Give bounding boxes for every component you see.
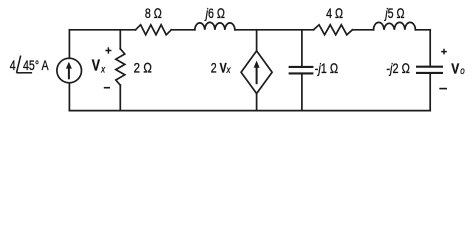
wire top middle [235, 29, 314, 31]
current source I1 circle [57, 58, 82, 83]
wire 2ohm branch top [119, 30, 121, 49]
wire left rail below source [68, 83, 70, 111]
wire top-left segment [69, 29, 135, 31]
svg-text:V: V [451, 60, 459, 77]
svg-text:j5 Ω: j5 Ω [384, 6, 405, 22]
wire between 8ohm and j6 [171, 29, 195, 31]
inductor L2 j5 [374, 22, 416, 29]
wire between 4ohm and j5 [352, 29, 373, 31]
svg-text:o: o [460, 65, 464, 76]
svg-text:x: x [100, 64, 105, 75]
current source arrow [66, 62, 72, 80]
minus sign Vo [439, 88, 447, 90]
svg-text:4: 4 [10, 57, 16, 73]
dependent current source D1 diamond 2Vx [241, 51, 272, 94]
wire bottom rail [69, 110, 430, 112]
wire top-right segment [415, 29, 430, 31]
capacitor C2 -j2 plates [416, 67, 443, 73]
wire left rail above source [68, 30, 70, 59]
capacitor C1 -j1 plates [289, 67, 314, 74]
angle symbol of source label [17, 56, 33, 73]
wire right rail below cap [429, 74, 431, 111]
label 4 45deg A [10, 57, 49, 73]
resistor R2 4ohm [314, 25, 353, 35]
wire right rail above cap [429, 30, 431, 66]
wire dep-source branch bottom [256, 94, 258, 111]
svg-text:4 Ω: 4 Ω [326, 6, 343, 22]
resistor R3 2ohm [116, 49, 125, 85]
wire -j1 branch top [301, 30, 303, 66]
svg-text:2 Ω: 2 Ω [134, 59, 153, 75]
svg-text:-j2 Ω: -j2 Ω [386, 61, 410, 77]
svg-text:8 Ω: 8 Ω [145, 6, 162, 22]
resistor R1 8ohm [136, 25, 172, 35]
svg-text:j6 Ω: j6 Ω [204, 6, 225, 22]
svg-text:V: V [92, 56, 101, 74]
wire -j1 branch bottom [301, 74, 303, 110]
inductor L1 j6 [195, 22, 235, 29]
dependent source arrow [254, 61, 260, 85]
minus sign Vx [104, 87, 110, 89]
svg-text:2 V: 2 V [211, 60, 228, 76]
svg-text:x: x [226, 64, 231, 75]
svg-text:45° A: 45° A [23, 57, 49, 73]
plus sign Vo [441, 49, 447, 55]
wire 2ohm branch bottom [119, 85, 121, 110]
plus sign Vx [105, 47, 111, 53]
svg-text:-j1 Ω: -j1 Ω [315, 61, 339, 77]
wire dep-source branch top [256, 30, 258, 51]
